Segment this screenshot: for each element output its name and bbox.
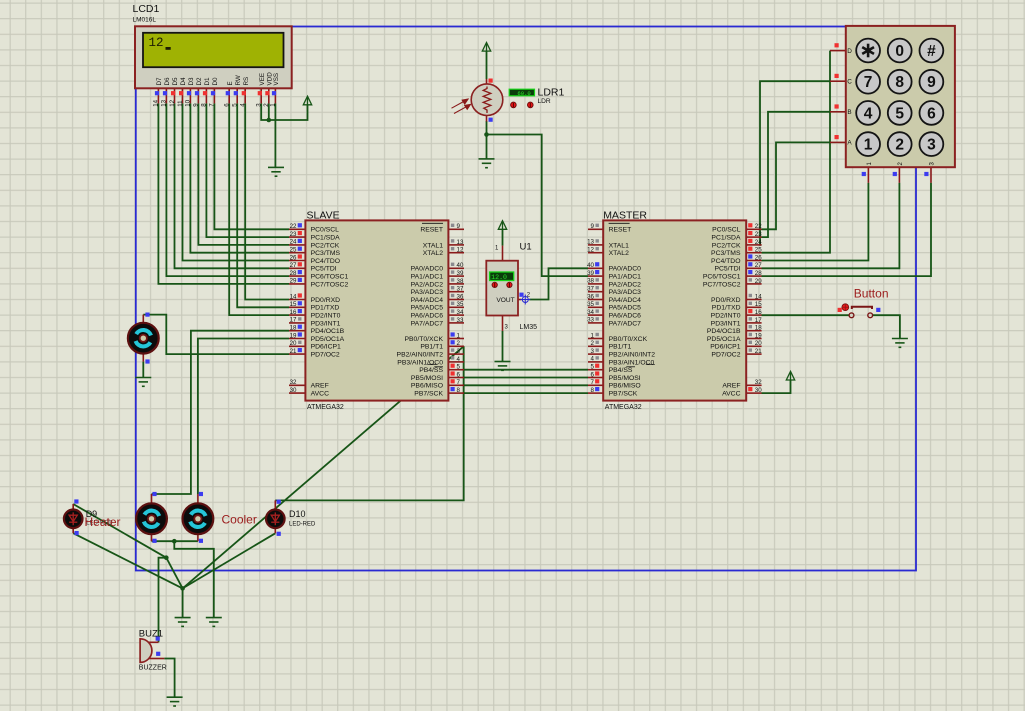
svg-text:PB2/AIN0/INT2: PB2/AIN0/INT2 <box>609 352 656 359</box>
svg-text:D7: D7 <box>156 77 163 86</box>
svg-text:U1: U1 <box>520 241 532 252</box>
wire LCD D6 to SLAVE PC6 <box>166 103 289 276</box>
svg-text:PC2/TCK: PC2/TCK <box>712 242 741 249</box>
power terminal LCD <box>303 96 311 105</box>
svg-text:26: 26 <box>290 254 297 261</box>
svg-text:35: 35 <box>457 301 464 308</box>
LED D9 state squares <box>74 499 78 535</box>
fan motor Cooler body <box>183 503 214 534</box>
svg-text:AVCC: AVCC <box>722 391 740 398</box>
wire LCD D1 to SLAVE PC1 <box>206 103 289 237</box>
wire LDR to MASTER PA1 <box>487 135 589 277</box>
svg-text:30: 30 <box>755 387 762 394</box>
svg-text:XTAL2: XTAL2 <box>423 250 443 257</box>
svg-text:PD6/ICP1: PD6/ICP1 <box>710 344 740 351</box>
svg-text:9: 9 <box>591 223 595 230</box>
svg-text:C: C <box>847 79 852 86</box>
wire LCD D3 to SLAVE PC3 <box>190 103 289 252</box>
U1 VOUT node crosshair <box>520 295 530 305</box>
LDR1 adjust knobs <box>511 102 533 108</box>
svg-text:7: 7 <box>457 379 461 386</box>
fan motor Heater stubs <box>151 494 153 541</box>
svg-text:PC2/TCK: PC2/TCK <box>311 242 340 249</box>
svg-text:PD7/OC2: PD7/OC2 <box>311 352 340 359</box>
wire LCD E to SLAVE PD2 <box>229 103 289 315</box>
svg-text:BUZ1: BUZ1 <box>139 629 163 640</box>
svg-text:39: 39 <box>457 270 464 277</box>
U1 pin3 stub <box>502 316 504 331</box>
svg-text:PB5/MOSI: PB5/MOSI <box>609 375 641 382</box>
svg-text:XTAL1: XTAL1 <box>423 242 443 249</box>
fan motor Cooler stubs <box>197 494 199 541</box>
svg-text:38: 38 <box>457 278 464 285</box>
svg-text:35: 35 <box>587 301 594 308</box>
wire SPI PB7/SCK SLAVE to MASTER <box>464 392 588 394</box>
LED D10 state squares <box>277 500 281 536</box>
svg-text:4: 4 <box>591 356 595 363</box>
svg-text:D0: D0 <box>212 77 219 86</box>
svg-text:12: 12 <box>149 36 164 50</box>
wire LCD VEE to VDD junction <box>261 103 269 120</box>
svg-text:23: 23 <box>755 231 762 238</box>
svg-text:12: 12 <box>169 99 176 106</box>
svg-text:RS: RS <box>243 77 250 86</box>
wire LCD D7 to SLAVE PC7 <box>158 103 289 284</box>
svg-text:27: 27 <box>755 262 762 269</box>
fan motor Heater state squares <box>152 492 156 543</box>
svg-text:PB0/T0/XCK: PB0/T0/XCK <box>404 336 443 343</box>
svg-text:LM35: LM35 <box>520 324 538 331</box>
wire D9 cathode diagonal to J3 <box>73 533 182 588</box>
svg-text:17: 17 <box>290 317 297 324</box>
LED D10 stubs <box>274 500 276 533</box>
wire LCD D0 to SLAVE PC0 <box>214 103 289 229</box>
svg-text:21: 21 <box>290 348 297 355</box>
svg-text:LDR: LDR <box>538 98 551 105</box>
svg-text:22: 22 <box>755 223 762 230</box>
svg-text:16: 16 <box>755 309 762 316</box>
LED D9 body <box>64 510 83 529</box>
svg-text:13: 13 <box>587 239 594 246</box>
ground fan1 <box>135 378 151 387</box>
svg-text:PB4/SS: PB4/SS <box>419 367 443 374</box>
svg-text:PA5/ADC5: PA5/ADC5 <box>609 305 642 312</box>
svg-text:1: 1 <box>864 137 873 154</box>
svg-text:26: 26 <box>755 254 762 261</box>
svg-text:PB4/SS: PB4/SS <box>609 367 633 374</box>
svg-text:PA6/ADC6: PA6/ADC6 <box>411 313 444 320</box>
LDR1 bottom stub <box>486 115 488 122</box>
IC SLAVE right pin labels and numbers <box>397 223 464 397</box>
IC SLAVE body <box>305 220 448 400</box>
svg-text:7: 7 <box>591 379 595 386</box>
svg-text:VOUT: VOUT <box>496 297 514 304</box>
IC MASTER body <box>603 220 746 400</box>
svg-text:37: 37 <box>587 286 594 293</box>
svg-text:PD3/INT1: PD3/INT1 <box>711 320 741 327</box>
svg-text:19: 19 <box>290 332 297 339</box>
svg-text:17: 17 <box>755 317 762 324</box>
wire LCD D4 to SLAVE PC4 <box>183 103 290 260</box>
svg-text:BUZZER: BUZZER <box>139 664 167 671</box>
svg-text:36: 36 <box>457 293 464 300</box>
fan motor Cooler state squares <box>199 492 203 543</box>
LCD1 pin numbers <box>153 99 277 106</box>
svg-text:3: 3 <box>457 348 461 355</box>
wire MASTER PD2 to button <box>762 314 850 316</box>
wire fan1 bottom to ground <box>142 362 144 378</box>
svg-text:29: 29 <box>755 278 762 285</box>
svg-text:ATMEGA32: ATMEGA32 <box>307 404 344 411</box>
keypad row and column labels <box>847 48 935 166</box>
wire LCD VDD to power <box>269 103 308 120</box>
U1 pin2 stub <box>518 299 522 301</box>
ground G1 <box>175 618 191 627</box>
wire keypad row D to MASTER PC3 <box>762 51 831 253</box>
wire D9 anode diagonal to J2 <box>73 504 166 558</box>
svg-text:8: 8 <box>895 74 904 91</box>
svg-text:11: 11 <box>177 100 184 107</box>
svg-text:28: 28 <box>755 270 762 277</box>
keypad pin stubs <box>830 51 931 183</box>
LED D10 body <box>266 510 285 529</box>
svg-text:10: 10 <box>185 99 192 106</box>
U1 pin2 state square <box>519 293 523 297</box>
svg-text:PD5/OC1A: PD5/OC1A <box>311 336 345 343</box>
ground LCD VSS <box>268 167 284 176</box>
wire fan2 bottom to fan3 bottom <box>152 540 198 542</box>
svg-text:PD1/TXD: PD1/TXD <box>311 305 340 312</box>
svg-text:16: 16 <box>290 309 297 316</box>
ground button <box>892 339 908 348</box>
svg-text:PA2/ADC2: PA2/ADC2 <box>609 281 642 288</box>
svg-text:PA3/ADC3: PA3/ADC3 <box>609 289 642 296</box>
wire SPI PB5/MOSI SLAVE to MASTER <box>464 377 588 379</box>
svg-text:PC1/SDA: PC1/SDA <box>311 235 341 242</box>
svg-text:32: 32 <box>755 379 762 386</box>
node junction J3 <box>180 586 185 591</box>
svg-text:25: 25 <box>290 247 297 254</box>
svg-text:LM016L: LM016L <box>133 17 157 24</box>
svg-text:2: 2 <box>457 340 461 347</box>
button actuator knob <box>842 304 849 311</box>
svg-text:12.0: 12.0 <box>491 274 507 281</box>
svg-text:XTAL1: XTAL1 <box>609 242 629 249</box>
wire J2 to J3 <box>166 558 182 589</box>
wire LCD RW to SLAVE PD1 <box>237 103 289 307</box>
LDR1 display <box>509 89 534 97</box>
svg-text:40: 40 <box>587 262 594 269</box>
blue bus border rectangle <box>136 27 916 571</box>
svg-text:AREF: AREF <box>722 383 740 390</box>
svg-text:29: 29 <box>290 278 297 285</box>
svg-text:PD0/RXD: PD0/RXD <box>311 297 341 304</box>
svg-text:D1: D1 <box>204 77 211 86</box>
svg-text:13: 13 <box>457 239 464 246</box>
svg-text:LED-RED: LED-RED <box>289 522 316 528</box>
svg-text:PC4/TDO: PC4/TDO <box>311 258 340 265</box>
IC SLAVE pin stubs <box>289 229 464 393</box>
svg-text:D4: D4 <box>180 77 187 86</box>
svg-text:D6: D6 <box>164 77 171 86</box>
fan motor OC1 state squares <box>145 313 149 364</box>
svg-text:PC3/TMS: PC3/TMS <box>311 250 341 257</box>
svg-text:E: E <box>227 81 234 85</box>
svg-text:7: 7 <box>864 74 873 91</box>
svg-text:8: 8 <box>457 387 461 394</box>
svg-text:PA4/ADC4: PA4/ADC4 <box>411 297 444 304</box>
buzzer BUZ1 stubs <box>149 642 165 658</box>
IC SLAVE left pin labels and numbers <box>290 223 349 397</box>
IC MASTER right pin labels and numbers <box>703 223 762 397</box>
keypad body <box>846 26 955 167</box>
svg-text:PA2/ADC2: PA2/ADC2 <box>411 281 444 288</box>
svg-text:PD4/OC1B: PD4/OC1B <box>311 328 345 335</box>
svg-text:9: 9 <box>457 223 461 230</box>
svg-text:6: 6 <box>457 371 461 378</box>
svg-text:24: 24 <box>290 239 297 246</box>
svg-text:PC7/TOSC2: PC7/TOSC2 <box>311 281 349 288</box>
svg-text:PC3/TMS: PC3/TMS <box>711 250 741 257</box>
svg-text:A: A <box>847 140 852 147</box>
wire keypad col 2 to MASTER PC5 <box>762 183 900 268</box>
LCD1 body <box>135 26 292 88</box>
ground G3 buzzer <box>167 697 183 706</box>
svg-text:14: 14 <box>153 99 160 106</box>
svg-text:ATMEGA32: ATMEGA32 <box>605 404 642 411</box>
svg-text:13: 13 <box>161 99 168 106</box>
svg-text:PB1/T1: PB1/T1 <box>420 344 443 351</box>
svg-text:5: 5 <box>895 105 904 122</box>
svg-text:25: 25 <box>755 247 762 254</box>
svg-text:33: 33 <box>457 317 464 324</box>
svg-text:33: 33 <box>587 317 594 324</box>
svg-text:32: 32 <box>290 379 297 386</box>
svg-text:RESET: RESET <box>420 227 443 234</box>
LDR1 light arrows <box>452 99 471 113</box>
svg-text:D10: D10 <box>289 509 306 519</box>
svg-text:PD7/OC2: PD7/OC2 <box>711 352 740 359</box>
wire LCD D5 to SLAVE PC5 <box>175 103 290 268</box>
svg-text:PA6/ADC6: PA6/ADC6 <box>609 313 642 320</box>
svg-text:VSS: VSS <box>273 73 280 86</box>
svg-text:5: 5 <box>232 103 239 107</box>
svg-text:23: 23 <box>290 231 297 238</box>
svg-text:15: 15 <box>290 301 297 308</box>
wire J2 to buzzer top <box>159 558 167 643</box>
svg-text:20: 20 <box>290 340 297 347</box>
svg-text:15: 15 <box>755 301 762 308</box>
svg-text:VEE: VEE <box>259 73 266 86</box>
fan motor Heater body <box>136 503 167 534</box>
svg-text:PB7/SCK: PB7/SCK <box>414 391 443 398</box>
svg-text:PD5/OC1A: PD5/OC1A <box>707 336 741 343</box>
svg-text:PC5/TDI: PC5/TDI <box>311 266 337 273</box>
svg-text:8: 8 <box>591 387 595 394</box>
svg-text:40: 40 <box>457 262 464 269</box>
svg-text:LDR1: LDR1 <box>538 86 565 98</box>
svg-text:PB3/AIN1/OC0: PB3/AIN1/OC0 <box>397 359 443 366</box>
wire J3 to ground G1 <box>182 588 184 617</box>
LDR1 top stub <box>486 79 488 85</box>
svg-text:6: 6 <box>224 103 231 107</box>
button actuator bar <box>852 307 872 309</box>
svg-text:PA7/ADC7: PA7/ADC7 <box>609 320 642 327</box>
svg-text:PA1/ADC1: PA1/ADC1 <box>411 274 444 281</box>
U1 adjust knobs <box>492 282 512 287</box>
keypad pin state squares <box>835 43 929 176</box>
LDR1 body circle <box>471 84 503 116</box>
node junction J2 <box>164 555 169 560</box>
svg-text:PB7/SCK: PB7/SCK <box>609 391 638 398</box>
svg-text:36: 36 <box>587 293 594 300</box>
ground G2 fans <box>206 618 222 627</box>
svg-text:PA1/ADC1: PA1/ADC1 <box>609 274 642 281</box>
svg-text:#: # <box>927 43 936 60</box>
wire SPI PB6/MISO SLAVE to MASTER <box>464 384 588 386</box>
wire SLAVE PD5 to fan3 top <box>198 339 289 495</box>
svg-text:Heater: Heater <box>85 515 121 529</box>
LCD1 pin stubs <box>158 88 275 103</box>
power terminal U1 <box>498 221 506 230</box>
buzzer BUZ1 state squares <box>156 637 161 656</box>
IC MASTER left pin labels and numbers <box>587 223 655 397</box>
svg-text:6: 6 <box>927 105 936 122</box>
svg-text:PD2/INT0: PD2/INT0 <box>311 313 341 320</box>
svg-text:PA4/ADC4: PA4/ADC4 <box>609 297 642 304</box>
svg-text:PA0/ADC0: PA0/ADC0 <box>609 266 642 273</box>
svg-text:5: 5 <box>591 364 595 371</box>
svg-text:PA3/ADC3: PA3/ADC3 <box>411 289 444 296</box>
IC MASTER pin stubs <box>588 229 762 393</box>
svg-text:6: 6 <box>591 371 595 378</box>
U1 display <box>490 272 514 281</box>
svg-text:28: 28 <box>290 270 297 277</box>
svg-text:PB0/T0/XCK: PB0/T0/XCK <box>609 336 648 343</box>
wire MASTER AVCC to power <box>762 380 791 393</box>
LCD1 pin state squares <box>155 91 276 95</box>
svg-text:PD4/OC1B: PD4/OC1B <box>707 328 741 335</box>
wire SLAVE PB1 to D10 anode <box>275 346 463 500</box>
svg-text:D: D <box>847 48 852 55</box>
svg-text:2: 2 <box>895 137 904 154</box>
svg-text:PB5/MOSI: PB5/MOSI <box>411 375 443 382</box>
fan motor OC1 body <box>128 323 159 354</box>
wire button to ground <box>872 315 900 338</box>
svg-text:3: 3 <box>591 348 595 355</box>
wire LCD RS to SLAVE PD0 <box>245 103 289 299</box>
svg-text:PC6/TOSC1: PC6/TOSC1 <box>311 274 349 281</box>
svg-text:RESET: RESET <box>609 227 632 234</box>
svg-text:AREF: AREF <box>311 383 329 390</box>
svg-text:PA0/ADC0: PA0/ADC0 <box>411 266 444 273</box>
node LCD VDD junction <box>267 118 272 123</box>
svg-text:D5: D5 <box>172 77 179 86</box>
wire U1 pin3 to ground <box>502 331 504 362</box>
svg-text:PC5/TDI: PC5/TDI <box>714 266 740 273</box>
svg-text:24: 24 <box>755 239 762 246</box>
svg-text:PB2/AIN0/INT2: PB2/AIN0/INT2 <box>397 352 444 359</box>
svg-text:LCD1: LCD1 <box>133 3 160 15</box>
svg-text:60.0: 60.0 <box>517 90 531 97</box>
svg-text:B: B <box>847 109 851 116</box>
power terminal LDR <box>482 43 490 52</box>
svg-text:PC0/SCL: PC0/SCL <box>311 227 340 234</box>
node fans bottom junction J1 <box>172 539 177 544</box>
svg-text:9: 9 <box>927 74 936 91</box>
LCD1 screen cursor <box>166 47 171 50</box>
wire keypad row A to MASTER PC0 <box>761 142 830 229</box>
svg-text:20: 20 <box>755 340 762 347</box>
svg-text:D3: D3 <box>188 77 195 86</box>
svg-text:22: 22 <box>290 223 297 230</box>
button contacts <box>849 313 873 318</box>
LDR1 pin state squares <box>489 79 493 122</box>
wire power to U1 pin1 <box>502 229 504 245</box>
svg-text:18: 18 <box>290 325 297 332</box>
wire SPI PB4/SS SLAVE to MASTER <box>464 369 588 371</box>
wire LCD D2 to SLAVE PC2 <box>198 103 289 245</box>
svg-text:8: 8 <box>201 103 208 107</box>
svg-text:9: 9 <box>193 103 200 107</box>
svg-text:37: 37 <box>457 286 464 293</box>
svg-text:PA5/ADC5: PA5/ADC5 <box>411 305 444 312</box>
wire keypad row C to MASTER PC2 <box>760 81 830 245</box>
svg-text:7: 7 <box>209 103 216 107</box>
keypad buttons <box>856 39 943 156</box>
wire keypad col 1 to MASTER PC4 <box>762 183 869 261</box>
node LDR output junction <box>484 132 489 137</box>
svg-text:PB6/MISO: PB6/MISO <box>609 383 641 390</box>
svg-text:D2: D2 <box>196 77 203 86</box>
svg-text:3: 3 <box>927 137 936 154</box>
wire keypad col 3 to MASTER PC6 <box>762 183 932 276</box>
wire power to LDR top <box>486 51 488 79</box>
svg-text:AVCC: AVCC <box>311 391 329 398</box>
LCD1 pin name labels <box>156 72 280 86</box>
svg-text:PC7/TOSC2: PC7/TOSC2 <box>703 281 741 288</box>
svg-text:12: 12 <box>587 247 594 254</box>
svg-text:39: 39 <box>587 270 594 277</box>
svg-text:PB6/MISO: PB6/MISO <box>411 383 443 390</box>
wire J1 to ground G2 <box>174 541 214 617</box>
svg-text:XTAL2: XTAL2 <box>609 250 629 257</box>
svg-text:1: 1 <box>457 332 461 339</box>
svg-text:0: 0 <box>895 43 904 60</box>
LED D9 stubs <box>72 504 74 533</box>
svg-text:PA7/ADC7: PA7/ADC7 <box>411 320 444 327</box>
svg-text:PC6/TOSC1: PC6/TOSC1 <box>703 274 741 281</box>
button state squares <box>838 308 881 312</box>
LDR1 resistor zigzag <box>483 87 491 114</box>
U1 pin1 stub <box>502 246 504 261</box>
buzzer BUZ1 body <box>140 639 152 663</box>
wire U1 VOUT to MASTER PA0 <box>529 268 588 299</box>
svg-text:PB1/T1: PB1/T1 <box>609 344 632 351</box>
svg-text:PC4/TDO: PC4/TDO <box>711 258 740 265</box>
svg-text:4: 4 <box>457 356 461 363</box>
svg-text:34: 34 <box>457 309 464 316</box>
svg-text:14: 14 <box>290 293 297 300</box>
svg-text:PD6/ICP1: PD6/ICP1 <box>311 344 341 351</box>
wire SLAVE PD4 to fan2 top <box>152 331 290 494</box>
svg-text:12: 12 <box>457 247 464 254</box>
U1 body <box>486 261 518 316</box>
fan motor OC1 top stubs <box>142 315 144 362</box>
svg-text:1: 1 <box>270 103 277 107</box>
ground U1 <box>495 362 511 371</box>
wire fan1 top to SLAVE PD7 <box>143 315 289 355</box>
